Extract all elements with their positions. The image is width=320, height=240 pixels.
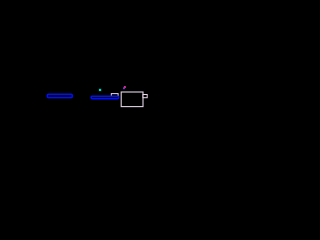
pad P1 (left pin of component U1)	[111, 94, 118, 98]
node C (purple marker dot)	[123, 87, 125, 89]
node A (teal via dot)	[99, 89, 101, 91]
resistor R1 (blue outlined trace segment, left)	[47, 94, 72, 97]
pad P2 (right pin of component U1)	[143, 95, 147, 98]
op-amp U1 (component body outline)	[121, 92, 143, 107]
wire (blue trace from node to pad P1)	[91, 96, 118, 98]
node B (pink marker dot)	[124, 86, 126, 88]
